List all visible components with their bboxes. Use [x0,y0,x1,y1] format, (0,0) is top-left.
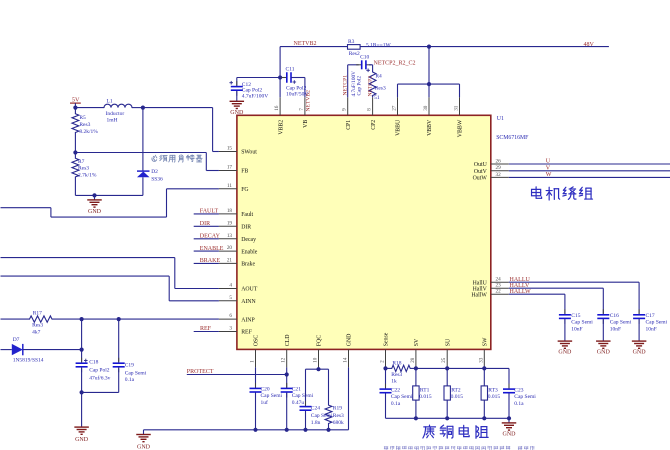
svg-text:VBBV: VBBV [427,119,433,136]
svg-text:GND: GND [503,432,517,438]
svg-text:6: 6 [229,313,232,319]
svg-text:REF: REF [241,330,252,336]
svg-text:C20: C20 [261,386,270,392]
svg-text:8.2k/1%: 8.2k/1% [79,129,98,135]
svg-text:NETCP2_R2_C2: NETCP2_R2_C2 [374,61,416,67]
svg-text:OutV: OutV [474,169,488,175]
svg-text:FQC: FQC [317,335,323,346]
svg-text:Res2: Res2 [349,51,360,57]
svg-text:48V: 48V [584,42,595,48]
svg-text:25: 25 [441,357,447,363]
svg-text:R5: R5 [79,115,86,121]
svg-text:51: 51 [374,95,380,101]
svg-text:GND: GND [633,350,647,356]
svg-text:19: 19 [227,220,233,226]
svg-text:GND: GND [347,334,353,347]
svg-text:R4: R4 [375,73,382,79]
svg-text:AINN: AINN [241,299,256,305]
svg-text:HALLW: HALLW [510,289,532,295]
svg-text:Cap Semi: Cap Semi [261,393,283,399]
svg-text:8: 8 [367,108,373,111]
svg-text:0.1a: 0.1a [514,401,524,407]
svg-text:C17: C17 [646,313,655,319]
svg-text:FAULT: FAULT [200,209,219,215]
svg-text:3: 3 [229,326,232,332]
svg-text:NETCP1: NETCP1 [343,75,349,96]
svg-text:2.7k/1%: 2.7k/1% [78,173,97,179]
svg-text:BRAKE: BRAKE [200,258,221,264]
svg-text:680k: 680k [333,420,344,426]
svg-text:Cap Semi: Cap Semi [514,394,536,400]
svg-text:Res3: Res3 [391,372,402,378]
svg-text:R17: R17 [33,311,42,317]
svg-text:HallW: HallW [471,292,487,298]
svg-text:9: 9 [342,108,348,111]
svg-text:18: 18 [227,208,233,214]
svg-text:ENABLE: ENABLE [200,246,224,252]
svg-text:RT3: RT3 [488,387,498,393]
svg-text:C19: C19 [125,363,134,369]
svg-text:1N5819/SS14: 1N5819/SS14 [13,358,44,364]
svg-text:13: 13 [227,233,233,239]
svg-text:20: 20 [227,245,233,251]
svg-text:DECAY: DECAY [200,234,221,240]
svg-text:NETVB2: NETVB2 [305,90,311,112]
svg-text:DIR: DIR [241,225,251,231]
svg-text:2: 2 [380,360,386,363]
svg-text:NETVB2: NETVB2 [294,41,317,47]
svg-text:31: 31 [454,105,460,111]
svg-text:14: 14 [343,357,349,363]
svg-text:Cap Semi: Cap Semi [391,394,413,400]
svg-text:AOUT: AOUT [241,287,258,293]
svg-text:GND: GND [137,444,151,450]
svg-text:12: 12 [281,357,287,363]
svg-text:R3: R3 [348,39,355,45]
svg-text:28: 28 [410,357,416,363]
svg-text:GND: GND [558,350,572,356]
svg-text:0.1a: 0.1a [125,377,135,383]
svg-text:SV: SV [414,338,420,346]
svg-text:Enable: Enable [241,249,258,255]
svg-text:Sense: Sense [384,332,390,346]
svg-text:DIR: DIR [200,221,210,227]
svg-text:L1: L1 [107,99,113,105]
svg-text:33: 33 [478,357,484,363]
svg-text:SS36: SS36 [151,176,163,182]
svg-text:5: 5 [229,295,232,301]
svg-text:10nF: 10nF [571,326,582,332]
svg-text:17: 17 [227,165,233,171]
svg-text:FB: FB [241,169,248,175]
svg-text:AINP: AINP [241,317,255,323]
svg-text:Cap Semi: Cap Semi [571,320,593,326]
svg-text:SCM6716MF: SCM6716MF [496,135,529,141]
svg-text:Cap Semi: Cap Semi [646,320,668,326]
svg-text:PROTECT: PROTECT [187,369,214,375]
svg-text:OutW: OutW [473,176,488,182]
svg-text:10nF: 10nF [646,326,657,332]
svg-text:4.7uF/100V: 4.7uF/100V [242,94,268,100]
svg-text:0.015: 0.015 [419,394,432,400]
svg-text:0.47u: 0.47u [292,400,305,406]
svg-text:4: 4 [229,283,232,289]
svg-text:R7: R7 [78,159,85,165]
svg-text:CP1: CP1 [346,120,352,130]
svg-text:Res3: Res3 [32,323,43,329]
svg-text:GND: GND [88,209,102,215]
svg-text:C11: C11 [286,67,295,73]
svg-text:NETCP2: NETCP2 [368,76,374,97]
svg-text:C10: C10 [360,55,369,61]
svg-text:30: 30 [423,105,429,111]
svg-text:1k: 1k [391,379,397,385]
svg-text:OutU: OutU [474,162,488,168]
svg-text:C18: C18 [89,360,98,366]
svg-text:0.015: 0.015 [488,394,501,400]
svg-text:D7: D7 [13,337,20,343]
svg-text:U1: U1 [497,116,504,122]
svg-text:1: 1 [250,360,256,363]
svg-text:Inductor: Inductor [106,111,125,117]
svg-text:SWout: SWout [241,150,257,156]
svg-text:Res3: Res3 [375,86,386,92]
svg-text:Cap Pol2: Cap Pol2 [356,76,362,96]
svg-text:Brake: Brake [241,262,255,268]
svg-text:10: 10 [313,357,319,363]
svg-text:10nF: 10nF [610,326,621,332]
svg-text:SW: SW [483,337,489,346]
svg-text:1.8n: 1.8n [311,420,321,426]
svg-text:R19: R19 [333,406,342,412]
svg-text:21: 21 [227,257,233,263]
svg-text:U: U [546,159,551,165]
svg-text:C21: C21 [292,386,301,392]
svg-text:Cap Semi: Cap Semi [125,370,147,376]
svg-text:VBB2: VBB2 [278,120,284,135]
svg-text:V: V [546,166,551,172]
svg-text:Cap Semi: Cap Semi [311,413,333,419]
svg-text:C24: C24 [311,406,320,412]
svg-text:D2: D2 [151,169,158,175]
svg-text:W: W [546,172,552,178]
svg-text:OSC: OSC [254,335,260,346]
svg-text:26: 26 [496,158,502,164]
svg-text:GND: GND [230,110,244,116]
svg-text:CLD: CLD [285,335,291,347]
svg-text:C15: C15 [571,313,580,319]
svg-text:VB: VB [303,120,309,128]
svg-text:Res3: Res3 [333,413,344,419]
svg-text:C23: C23 [514,387,523,393]
svg-text:29: 29 [496,165,502,171]
svg-text:REF: REF [200,326,212,332]
svg-text:4k7: 4k7 [32,329,41,335]
svg-text:SU: SU [445,338,451,346]
svg-text:47uf/6.3v: 47uf/6.3v [89,374,110,381]
svg-text:1uf: 1uf [261,399,269,406]
svg-text:Cap Pol2: Cap Pol2 [89,368,110,374]
svg-text:C16: C16 [610,313,619,319]
svg-text:5.1R==1W: 5.1R==1W [366,42,391,48]
svg-text:16: 16 [274,105,280,111]
svg-text:0.1a: 0.1a [391,401,401,407]
svg-text:11: 11 [227,183,232,189]
svg-text:Cap Semi: Cap Semi [292,393,314,399]
svg-text:Decay: Decay [241,237,256,243]
svg-text:VBBU: VBBU [396,119,402,136]
svg-text:32: 32 [496,172,502,178]
svg-text:15: 15 [227,146,233,152]
svg-text:7: 7 [299,108,305,111]
svg-text:CP2: CP2 [371,120,377,130]
svg-text:0.015: 0.015 [451,394,464,400]
svg-text:R18: R18 [392,361,401,367]
svg-text:22: 22 [496,289,502,295]
svg-text:VBBW: VBBW [458,119,464,137]
svg-text:1mH: 1mH [107,118,118,124]
svg-text:C22: C22 [391,387,400,393]
svg-text:Res3: Res3 [78,166,89,172]
svg-text:RT2: RT2 [451,387,461,393]
svg-text:GND: GND [75,437,89,443]
svg-text:Cap Semi: Cap Semi [610,320,632,326]
svg-text:27: 27 [392,105,398,111]
svg-text:GND: GND [597,350,611,356]
svg-text:RT1: RT1 [420,387,430,393]
svg-text:Res3: Res3 [79,122,90,128]
svg-text:Fault: Fault [241,212,253,218]
svg-text:FG: FG [241,187,248,193]
